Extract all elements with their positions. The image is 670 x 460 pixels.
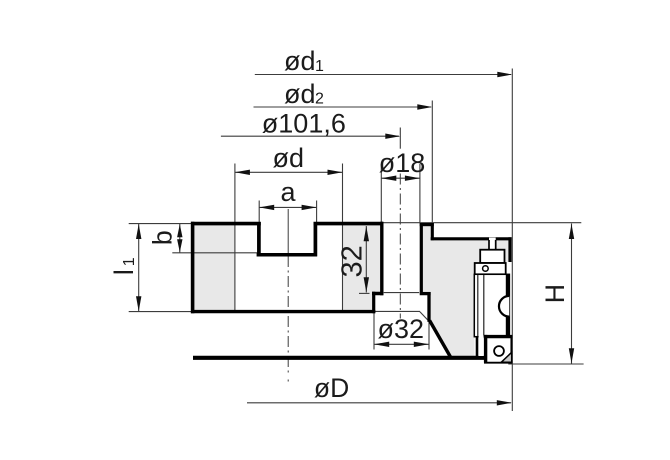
dimension line o18: [381, 177, 420, 179]
extension line o18 left: [380, 164, 382, 223]
svg-text:2: 2: [315, 91, 324, 108]
arrow o101,6: [385, 134, 400, 139]
cartridge right edge lower segment: [506, 316, 509, 336]
svg-text:1: 1: [315, 58, 324, 75]
section fill cutter body: [423, 240, 509, 356]
dimension line o32: [374, 343, 429, 345]
insert block: [486, 337, 512, 363]
dimension line od1: [255, 74, 511, 76]
thin edge far side of hole step: [384, 292, 419, 294]
extension line b depth: [172, 252, 258, 254]
svg-text:ø101,6: ø101,6: [262, 108, 346, 138]
label l1 rotated: [109, 257, 139, 275]
section fill left hub strip: [194, 225, 235, 311]
arrow b bottom: [177, 239, 182, 252]
clamp screw head: [480, 250, 504, 263]
clamp plate: [475, 263, 506, 274]
outline left flange right edge: [380, 222, 383, 295]
outline left flange top surface left segment: [191, 222, 261, 226]
outline lip right edge: [431, 223, 434, 240]
insert tip triangle: [501, 352, 512, 362]
extension line l1 top: [129, 223, 194, 225]
extension line o32 right: [428, 322, 430, 350]
dimension line b: [179, 224, 181, 253]
extension line a right: [316, 201, 318, 223]
outline lip top: [420, 223, 434, 226]
dimension line l1: [138, 224, 140, 312]
extension line od2 x432: [431, 101, 433, 224]
extension line a left: [258, 201, 260, 223]
extension line od left crossing body: [234, 164, 236, 312]
outline cutter body left edge: [420, 223, 423, 294]
arrow od left: [235, 170, 250, 175]
arrow a left: [259, 205, 274, 210]
dimension line o101,6: [221, 135, 399, 137]
thin chamfer edge of spigot: [420, 312, 428, 320]
clamp screw shank: [489, 238, 496, 250]
extension line o101,6 bolt circle: [399, 128, 401, 149]
cartridge relief notch semicircle: [499, 296, 509, 317]
extension line o18 right: [419, 164, 421, 223]
arrow oD: [497, 400, 512, 405]
white gap right of lower cartridge edge: [479, 336, 484, 357]
cartridge wedge line 1: [477, 275, 479, 336]
extension line od1/oD at cutter periphery x512: [511, 69, 513, 412]
svg-text:H: H: [540, 284, 570, 304]
svg-text:ød: ød: [284, 46, 316, 76]
arrow o32 right: [414, 342, 429, 347]
outline slot right wall: [314, 222, 318, 256]
arrow b top: [177, 224, 182, 237]
svg-text:a: a: [281, 177, 297, 207]
cartridge right edge upper segment: [506, 274, 509, 296]
cartridge left edge lower thick: [476, 336, 479, 357]
outline long bottom face line: [193, 356, 485, 360]
section fill lip core of cutter body: [423, 226, 431, 242]
arrow H top: [569, 224, 574, 239]
extension line H bottom: [508, 363, 583, 365]
arrow 32 bottom: [364, 277, 369, 292]
dimension line a: [259, 206, 316, 208]
label H rotated: [540, 284, 570, 304]
svg-text:ø18: ø18: [379, 148, 426, 178]
outline left flange bottom: [191, 310, 375, 313]
extension tick for 32 dim at step: [359, 292, 370, 294]
extension line od right crossing body: [342, 164, 344, 312]
arrow od right: [328, 170, 343, 175]
dimension line 32: [365, 226, 367, 293]
outline cutter right edge upper: [508, 237, 511, 262]
arrow a right: [302, 205, 317, 210]
outline left flange top surface right segment: [314, 222, 384, 226]
outline step vertical: [372, 292, 375, 314]
extension line l1 bottom: [129, 311, 194, 313]
section fill right of bore with 32 label: [343, 225, 380, 311]
outline left flange left edge: [191, 222, 195, 313]
clamp plate screw hole: [483, 266, 489, 272]
svg-text:øD: øD: [314, 373, 349, 403]
outline slot left wall: [257, 222, 261, 256]
label b rotated: [147, 230, 177, 245]
arrow od1: [497, 72, 512, 77]
outline step horizontal at counterbore: [372, 292, 383, 296]
dimension line oD: [247, 402, 511, 404]
insert block top edge: [484, 335, 512, 338]
cartridge wedge line 2: [483, 275, 485, 336]
arrow od2: [417, 104, 432, 109]
arrow 32 top: [364, 226, 369, 241]
extension line H top: [384, 222, 582, 224]
svg-text:b: b: [147, 230, 177, 245]
dimension line od2: [254, 106, 432, 108]
svg-text:1: 1: [121, 257, 138, 266]
cartridge body: [474, 274, 509, 336]
dimension line H: [571, 224, 573, 364]
extension line o32 left: [373, 312, 375, 350]
arrow l1 top: [136, 224, 141, 239]
insert screw circle: [494, 346, 504, 356]
svg-text:ød: ød: [273, 143, 305, 173]
thin edge far side bottom of bore: [375, 310, 420, 312]
insert block right edge: [510, 335, 512, 363]
outline spigot top: [420, 292, 431, 295]
svg-text:ø32: ø32: [378, 314, 425, 344]
centerline end dot: [287, 380, 289, 382]
outline slot bottom: [257, 253, 317, 257]
arrow H bottom: [569, 348, 574, 363]
svg-text:l: l: [109, 269, 139, 275]
outline spigot right edge: [427, 292, 430, 322]
label 32 rotated: [337, 245, 369, 277]
dimension line od: [235, 171, 343, 173]
insert block left edge: [484, 335, 487, 363]
arrow o18 left: [381, 176, 396, 181]
arrow o32 left: [374, 342, 389, 347]
svg-text:ød: ød: [284, 79, 316, 109]
arrow l1 bottom: [136, 296, 141, 311]
outline chamfer diagonal: [430, 321, 451, 358]
outline cutter top surface: [431, 237, 512, 240]
insert block bottom edge: [484, 362, 512, 364]
centerline of slot dash-dot: [287, 209, 289, 255]
arrow o18 right: [405, 176, 420, 181]
svg-text:32: 32: [337, 245, 369, 277]
centerline of o18 hole dash-dot: [399, 174, 401, 319]
